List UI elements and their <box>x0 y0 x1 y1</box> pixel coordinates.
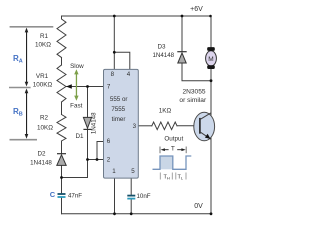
svg-text:timer: timer <box>112 116 126 123</box>
wire pin2 node to pin 2 <box>88 159 104 161</box>
node motor D3 <box>210 79 213 82</box>
wire D3 bottom to motor node <box>182 63 211 81</box>
svg-text:VR1: VR1 <box>36 73 49 80</box>
diode D3 <box>178 53 186 63</box>
svg-text:10KΩ: 10KΩ <box>35 42 51 49</box>
svg-text:Slow: Slow <box>70 63 84 70</box>
transistor Q1 body <box>194 112 215 141</box>
motor M body <box>206 51 217 66</box>
svg-text:47nF: 47nF <box>68 192 82 199</box>
dimension bar RA top <box>10 26 54 28</box>
wire 10nF to 0V rail <box>130 199 132 214</box>
transistor Q1 collector <box>200 113 211 120</box>
wire D2 to node <box>61 165 63 177</box>
diode D2 <box>57 155 66 166</box>
svg-text:555 or: 555 or <box>110 96 128 103</box>
svg-text:1: 1 <box>112 168 116 175</box>
resistor 1K <box>152 122 177 130</box>
transistor Q1 emitter arrowhead <box>205 134 211 139</box>
IC 555 timer body <box>104 69 139 178</box>
wire bottom 0V rail <box>62 213 212 215</box>
svg-text:R2: R2 <box>40 115 49 122</box>
wire node to capacitor C <box>61 178 63 194</box>
svg-text:7: 7 <box>107 83 111 90</box>
node D3 rail <box>181 15 184 18</box>
svg-text:M: M <box>208 56 213 63</box>
wire D3 top from rail <box>181 16 183 51</box>
svg-text:C: C <box>50 190 56 199</box>
svg-text:D1: D1 <box>75 133 84 140</box>
capacitor 10nF bottom plate <box>127 198 135 200</box>
wire R2 to D2 <box>61 141 63 153</box>
node pin4 branch <box>113 51 116 54</box>
capacitor 10nF top plate <box>127 195 135 197</box>
wire top +6V rail <box>62 15 212 17</box>
potentiometer VR1 track <box>57 65 66 102</box>
diode D2 cathode bar <box>57 153 66 155</box>
capacitor C top plate <box>58 193 66 195</box>
svg-text:100KΩ: 100KΩ <box>33 82 53 89</box>
VR1 wiper arrowhead <box>66 84 72 89</box>
output waveform fill <box>160 156 173 169</box>
diode D1 cathode bar <box>83 128 91 130</box>
wire 1K to transistor base <box>177 125 199 127</box>
wire VR1 wiper to pin 7 <box>66 86 104 88</box>
svg-text:2: 2 <box>107 157 111 164</box>
svg-text:10nF: 10nF <box>136 193 150 200</box>
svg-text:3: 3 <box>133 123 137 130</box>
node pin6 jog <box>96 158 99 161</box>
wire right rail below motor to 0V <box>210 69 212 214</box>
diode D1 <box>83 117 91 128</box>
capacitor C bottom plate <box>58 196 66 198</box>
svg-text:8: 8 <box>111 71 115 78</box>
resistor R2 <box>57 115 66 142</box>
svg-text:Output: Output <box>164 136 183 143</box>
svg-text:D3: D3 <box>157 44 166 51</box>
transistor Q1 emitter <box>200 132 211 140</box>
svg-text:2N3055: 2N3055 <box>182 88 205 95</box>
svg-text:1N4148: 1N4148 <box>91 112 98 134</box>
wire pin 3 to 1K resistor <box>138 125 152 127</box>
diode D3 cathode bar <box>177 51 186 53</box>
svg-text:6: 6 <box>107 138 111 145</box>
node pin8 rail <box>113 15 116 18</box>
green adjust arrow <box>74 69 78 101</box>
node motor rail corner <box>209 15 212 18</box>
svg-text:Fast: Fast <box>70 102 82 109</box>
svg-text:1N4148: 1N4148 <box>152 52 174 59</box>
svg-text:or similar: or similar <box>179 97 207 104</box>
svg-text:D2: D2 <box>37 150 46 157</box>
wire capacitor C to 0V rail <box>61 198 63 214</box>
resistor R1 <box>57 16 66 58</box>
svg-text:TH: TH <box>164 174 170 180</box>
svg-text:1N4148: 1N4148 <box>30 159 52 166</box>
waveform lower ticks <box>160 173 186 180</box>
wire pin 6 jog <box>97 142 104 160</box>
svg-text:+6V: +6V <box>190 6 203 13</box>
svg-text:10KΩ: 10KΩ <box>37 124 53 131</box>
dimension bar middle <box>9 87 31 89</box>
motor M bottom brush cap <box>207 65 215 69</box>
wire pin 1 to 0V rail <box>114 178 116 214</box>
svg-text:0V: 0V <box>194 203 203 210</box>
wire pin 8 to +6V rail <box>113 16 115 69</box>
node pin1 rail <box>113 212 116 215</box>
wire R1 to VR1 <box>61 58 63 66</box>
svg-text:R1: R1 <box>40 33 49 40</box>
wire pin 5 to 10nF <box>130 178 132 195</box>
wire VR1 to R2 <box>61 102 63 115</box>
svg-text:5: 5 <box>131 168 135 175</box>
wire wiper node to D1 <box>87 87 89 118</box>
node wiper D1 <box>86 85 89 88</box>
node D2 C <box>60 176 63 179</box>
dimension arrow RA <box>25 28 29 87</box>
svg-text:TL: TL <box>178 174 184 180</box>
node 10nF rail <box>130 212 133 215</box>
node emitter rail <box>210 212 213 215</box>
waveform T dimension arrows <box>164 149 183 151</box>
motor M top brush cap <box>207 47 215 51</box>
output waveform trace <box>153 156 192 169</box>
node D1 pin2 <box>86 158 89 161</box>
transistor Q1 base bar <box>199 118 201 134</box>
wire pin 4 branch <box>114 52 130 69</box>
wire D1 to pin2 node <box>87 129 89 159</box>
svg-text:1KΩ: 1KΩ <box>159 108 172 115</box>
wire D2 node loop to pin2 node <box>62 160 88 178</box>
dimension bar bottom <box>10 139 38 141</box>
svg-text:T: T <box>171 146 175 153</box>
wire right rail motor top <box>210 16 212 48</box>
svg-text:4: 4 <box>127 71 131 78</box>
svg-text:7555: 7555 <box>111 106 125 113</box>
waveform T dimension ticks <box>159 147 161 154</box>
dimension arrow RB <box>25 88 29 138</box>
